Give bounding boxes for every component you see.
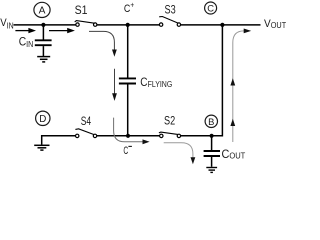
- svg-text:A: A: [39, 6, 46, 17]
- svg-text:C: C: [123, 145, 128, 157]
- ground below COUT: [206, 168, 217, 173]
- svg-text:S3: S3: [165, 2, 176, 16]
- capacitor CIN lead and plates: [35, 25, 52, 56]
- node C junction dot: [220, 23, 224, 27]
- switch S1 contacts and lever: [75, 21, 97, 27]
- ground below CIN: [37, 57, 50, 62]
- svg-text:COUT: COUT: [222, 149, 246, 161]
- svg-text:S1: S1: [75, 3, 88, 17]
- svg-text:S4: S4: [81, 114, 92, 128]
- straight current arrow through CFLYING pointing down: [112, 69, 117, 101]
- switch S2 contacts and lever: [159, 132, 181, 137]
- gray curved arrow from S2 down toward COUT: [164, 143, 196, 165]
- svg-text:D: D: [39, 114, 46, 125]
- node D circled label: [36, 111, 50, 125]
- ground bottom left: [34, 145, 49, 150]
- node C+ junction dot: [126, 23, 130, 27]
- curved current arrow from C- branch toward S2: [114, 118, 150, 145]
- node A circled label: [34, 2, 50, 17]
- current arrow on VIN wire before node A: [15, 28, 36, 33]
- capacitor CFLYING lead and plates: [119, 25, 136, 136]
- curved current arrow from S1 down into C+ branch: [89, 31, 117, 56]
- node C- junction dot: [126, 134, 130, 138]
- wire top rail from S1 to S3: [97, 24, 159, 26]
- wire bottom middle from S4 to S2: [97, 135, 160, 137]
- wire top rail from S3 to VOUT: [181, 24, 261, 26]
- capacitor COUT lead and plates: [204, 136, 220, 167]
- wire right branch from node C down and left to S2: [181, 25, 223, 136]
- node B circled label: [205, 115, 217, 127]
- svg-text:CFLYING: CFLYING: [140, 77, 172, 89]
- wire bottom left from ground stub to S4: [42, 136, 76, 145]
- node C circled label: [205, 2, 217, 14]
- switch S4 contacts and lever: [75, 129, 96, 138]
- node B junction dot: [210, 134, 214, 138]
- svg-text:S2: S2: [164, 113, 175, 127]
- svg-text:C: C: [207, 3, 214, 14]
- gray return arrow from node B up toward VOUT: [230, 29, 251, 143]
- switch S3 contacts and lever: [159, 17, 180, 27]
- current arrow on wire after node A toward S1: [49, 28, 75, 33]
- node A junction dot: [41, 23, 45, 27]
- wire top rail from VIN to switch S1: [14, 24, 76, 26]
- svg-text:B: B: [208, 116, 214, 127]
